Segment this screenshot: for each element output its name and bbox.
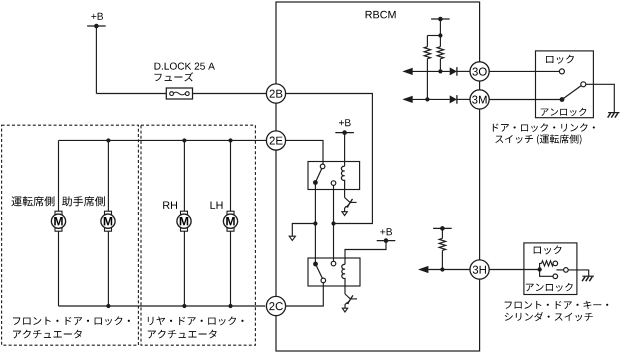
key switch common node — [537, 267, 541, 271]
power +B (battery feed) — [87, 13, 106, 29]
wire motor3 top drop — [183, 140, 185, 211]
front door lock actuator dashed box — [2, 125, 139, 345]
wire 3O to lock contact — [489, 70, 559, 72]
label front door lock actuator line1 — [13, 316, 130, 325]
label LH — [211, 202, 223, 209]
wire 3M row left — [413, 98, 450, 100]
power +B relay2 — [377, 228, 396, 243]
wire 3H row — [428, 269, 470, 271]
junction top bus motor4 — [228, 138, 232, 142]
arrow to door ajar circuits (3O) — [402, 68, 412, 75]
diode D1 (3O) — [450, 67, 457, 76]
wire motor2 top drop — [107, 140, 109, 211]
wire +B to relay1 coil — [344, 133, 346, 167]
wire supply to 3H resistor — [441, 228, 443, 238]
junction bottom bus motor3 — [182, 304, 186, 308]
resistor R1 (3M pull-up) — [424, 47, 430, 59]
key switch arm end — [564, 268, 569, 273]
RBCM module box — [276, 2, 480, 351]
wire R1 to 3M row — [426, 59, 428, 100]
link switch arm end — [581, 82, 586, 87]
junction ground rail / arm column — [313, 221, 317, 225]
wire relay1 arm to relay2 arm column — [314, 185, 316, 263]
connector pin 2B — [266, 84, 285, 103]
junction bottom bus motor4 — [228, 304, 232, 308]
arrow to key reminder circuit (3H) — [418, 266, 428, 273]
wire to fuse — [96, 93, 166, 95]
relay2 contact to +B rail — [331, 261, 336, 266]
motor M front driver — [51, 211, 65, 231]
wire fuse to 2B — [193, 93, 267, 95]
fuse D.LOCK 25A — [166, 88, 192, 99]
relay2 arm pivot — [313, 262, 318, 267]
wire to key resistor — [540, 263, 542, 269]
connector pin 3O — [470, 62, 489, 81]
junction R1 / 3M row — [425, 97, 429, 101]
wire +B to relay2 coil — [345, 241, 386, 265]
label unlock アンロック (link switch) — [541, 108, 587, 116]
label fuse (katakana) — [154, 72, 193, 81]
key switch lock contact — [553, 261, 558, 266]
wire motor4 top drop — [230, 140, 232, 211]
internal supply bar — [431, 17, 450, 22]
wire R3 to 3H row — [441, 250, 443, 269]
transistor Q2 relay2 driver + ground — [342, 286, 357, 312]
wire relay contact column — [333, 185, 335, 261]
wire diode to 3O — [457, 70, 470, 72]
resistor R3 (3H pull-up) — [439, 238, 445, 250]
wire diode to 3M — [457, 98, 470, 100]
ground (open triangle) — [289, 236, 295, 240]
label door lock link switch line2 — [495, 134, 581, 144]
wire R2 to 3O row — [439, 59, 441, 72]
chassis ground (key switch) — [582, 276, 594, 281]
wire branch to left resistor — [427, 35, 440, 37]
label rear actuator line2 — [148, 330, 217, 339]
diode D2 (3M) — [450, 95, 457, 104]
wire motor1 top drop — [58, 140, 60, 211]
label rear door lock actuator line1 — [148, 316, 244, 325]
junction top bus motor2 — [106, 138, 110, 142]
chassis ground (link switch) — [608, 113, 620, 118]
label front door key line1 — [505, 301, 609, 309]
wire +B down to fuse row — [95, 26, 97, 94]
relay2 switch arm — [316, 264, 324, 280]
label RH — [163, 202, 177, 209]
relay2 contact to 2C — [321, 278, 326, 283]
junction top bus motor3 — [182, 138, 186, 142]
junction 2B rail / contact column — [331, 221, 335, 225]
wire 2C to relay2 contact — [286, 283, 324, 306]
motor M rear RH — [177, 211, 191, 231]
connector pin 2C — [266, 296, 285, 315]
wire 3O row left — [413, 70, 450, 72]
label RBCM — [366, 11, 396, 19]
wire motor3 bottom drop — [183, 231, 185, 306]
motor M front passenger — [101, 211, 115, 231]
junction R2 / 3O row — [438, 69, 442, 73]
wire relay common rail to ground — [292, 224, 315, 238]
label unlock アンロック (key switch) — [526, 283, 573, 292]
label driver side 運転席側 — [12, 196, 55, 206]
wire supply to resistors — [439, 19, 441, 47]
label door lock link switch line1 — [493, 123, 595, 132]
wire link switch to ground — [586, 84, 615, 112]
arrow to door ajar circuits (3M) — [402, 96, 412, 103]
connector pin 3H — [470, 260, 489, 279]
relay1 arm pivot — [313, 180, 318, 185]
relay1 contact to +B rail — [331, 181, 336, 186]
junction resistor branch — [438, 33, 442, 37]
relay1 switch arm — [315, 167, 322, 183]
relay box lower (unlock relay) — [308, 258, 360, 286]
wire 2B feed to relay rail — [286, 94, 373, 224]
rear door lock actuator dashed box — [141, 125, 255, 345]
wire 3M to link switch common — [489, 99, 562, 101]
junction R3 / 3H row — [440, 267, 444, 271]
junction bottom bus motor2 — [106, 304, 110, 308]
relay1 coil — [341, 166, 344, 189]
label key cylinder switch line2 — [505, 312, 593, 321]
label front actuator line2 — [13, 330, 82, 339]
connector pin 3M — [470, 90, 489, 109]
connector pin 2E — [266, 131, 285, 150]
wire top bus from 2E — [59, 139, 267, 141]
internal supply bar 3H — [433, 226, 452, 231]
link switch arm — [562, 86, 581, 100]
key switch arm — [556, 269, 563, 271]
link switch lock contact — [559, 69, 564, 74]
key cylinder switch box — [524, 243, 577, 295]
wire 2E to relay1 contact — [286, 140, 324, 164]
transistor Q1 relay1 driver + ground — [342, 190, 357, 216]
wire to unlock contact — [540, 270, 553, 277]
relay2 coil — [342, 264, 345, 286]
wire key switch to ground — [568, 270, 589, 276]
resistor R4 (key lock sense) — [542, 261, 554, 266]
motor M rear LH — [223, 211, 237, 231]
power +B relay1 — [335, 119, 354, 135]
wire 3H to key switch — [489, 269, 537, 271]
door lock link switch box — [536, 51, 594, 118]
resistor R2 (3O pull-up) — [437, 47, 443, 59]
wire motor2 bottom drop — [107, 231, 109, 306]
wire motor4 bottom drop — [230, 231, 232, 306]
label D.LOCK 25 A — [155, 63, 215, 70]
relay box upper (lock relay) — [308, 162, 360, 190]
key switch unlock contact — [553, 274, 558, 279]
wire motor1 bottom drop — [58, 231, 60, 306]
wire left resistor top lead — [426, 36, 428, 47]
relay1 contact to 2E — [320, 164, 325, 169]
label lock ロック (key switch) — [534, 245, 562, 254]
link switch common (3M) — [560, 97, 565, 102]
label lock ロック (link switch) — [546, 55, 574, 64]
wire bottom bus to 2C — [59, 305, 266, 307]
label passenger side 助手席側 — [62, 196, 105, 206]
